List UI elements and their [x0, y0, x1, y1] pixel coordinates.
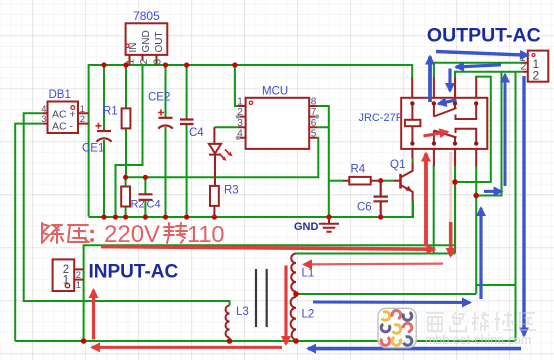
resistor R1 — [122, 108, 131, 128]
wire: L1 top wire — [296, 253, 455, 255]
annotation arrow blue: back from OUTPUT pin2 — [456, 65, 501, 67]
inductor L2 (secondary bottom) — [291, 297, 296, 340]
svg-text:1: 1 — [63, 275, 69, 287]
connector J1 INPUT-AC — [53, 259, 84, 291]
wire: relay bottom pin2 down to L1 wire — [433, 165, 435, 254]
svg-text:R4: R4 — [351, 164, 366, 176]
annotation arrow blue: down into relay pin — [448, 69, 451, 92]
relay K1 JRC-27F — [401, 77, 487, 166]
annotation arrow red: long 220V feed to relay — [101, 247, 435, 250]
MCU pin numbers left 1-4 — [237, 97, 243, 140]
annotation arrow red: fading down from relay — [449, 152, 452, 226]
capacitor CE1 (electrolytic) — [97, 131, 112, 142]
svg-text:JRC-27F: JRC-27F — [358, 112, 402, 124]
Q1 emitter arrow — [405, 186, 412, 192]
svg-text:R3: R3 — [224, 185, 239, 197]
annotation arrow red: up into relay — [424, 154, 428, 247]
svg-text:3: 3 — [153, 59, 164, 65]
wire: Q1 emitter riser — [412, 201, 414, 217]
svg-text:1: 1 — [76, 280, 81, 291]
svg-text:CE2: CE2 — [148, 92, 170, 104]
inductor L3 (primary) — [226, 306, 230, 338]
MCU U2 — [238, 98, 317, 149]
annotation arrow blue: down right side — [522, 76, 525, 336]
MCU pin numbers right 8-5 — [311, 97, 317, 140]
logo arcs row3 — [380, 335, 392, 347]
capacitor C4 (second) — [139, 194, 153, 200]
resistor R4 — [343, 177, 381, 185]
wire: relay bottom-right pin down to L2 wire — [475, 165, 477, 294]
wire: R4 left lead — [329, 180, 343, 182]
svg-text:INPUT-AC: INPUT-AC — [89, 262, 179, 283]
svg-text:IN: IN — [128, 43, 139, 53]
svg-text:GND: GND — [294, 221, 319, 233]
svg-text:L1: L1 — [302, 268, 315, 280]
svg-text:2: 2 — [80, 114, 85, 125]
wire: relay NO contact up to OUTPUT pin2 wire — [476, 72, 501, 196]
wire: relay top-right pin loop down right side — [455, 77, 491, 182]
svg-text:3: 3 — [41, 114, 46, 125]
capacitor CE2 (electrolytic) — [158, 118, 172, 129]
wire: relay pin5 top to OUTPUT pin1 — [434, 63, 522, 78]
watermark text mian bao ban she qu — [426, 312, 536, 331]
wire: L1-L2 junction leads — [295, 292, 297, 342]
svg-text:R1: R1 — [103, 106, 118, 118]
annotation arrow blue: right at relay NO junction — [484, 190, 502, 193]
resistor R2 — [121, 187, 130, 207]
transformer core — [256, 269, 267, 327]
wire: bottom transformer rail — [15, 340, 515, 342]
wire: OUTPUT pin2 branch down to transformer bottom rail — [515, 72, 517, 341]
svg-text:MCU: MCU — [262, 86, 288, 98]
transistor Q1 — [394, 163, 413, 202]
svg-text:8: 8 — [311, 97, 317, 108]
bridge rectifier DB1 — [42, 102, 88, 134]
wire: relay pin top to OUTPUT pin2 — [455, 72, 522, 78]
svg-text:OUT: OUT — [154, 31, 165, 52]
wire: mid rail to MCU pin5 — [126, 138, 319, 178]
svg-text:DB1: DB1 — [49, 89, 71, 101]
svg-text:1: 1 — [237, 97, 243, 108]
svg-text:3: 3 — [237, 118, 243, 129]
wire: MCU pin1 to +V rail — [235, 65, 238, 106]
svg-text:7: 7 — [311, 107, 317, 118]
wire: C4 column — [186, 64, 188, 217]
svg-text:6: 6 — [311, 118, 317, 129]
annotation arrow blue: up from relay NO to output — [504, 75, 507, 187]
wire: R4 to Q1 base — [381, 180, 394, 182]
svg-text:2: 2 — [139, 59, 150, 65]
CE1 plus sign — [96, 123, 102, 129]
annotation arrow red: along bottom to input — [92, 346, 282, 349]
annotation arrow red: left into L1 — [304, 263, 443, 266]
svg-text:2: 2 — [237, 107, 243, 118]
svg-text:7805: 7805 — [133, 9, 160, 23]
wire: MCU pin3 to LED — [214, 126, 238, 128]
LED D1 — [209, 127, 221, 186]
LED emission arrows — [219, 150, 231, 160]
svg-text:2: 2 — [533, 69, 540, 83]
wire: bottom GND rail — [89, 201, 413, 217]
svg-text:mbb.eet-china.com: mbb.eet-china.com — [425, 333, 531, 347]
wire: Q1 collector to relay coil — [412, 89, 414, 163]
wire: R1 column — [125, 64, 127, 177]
svg-text:5: 5 — [311, 128, 317, 139]
relay pin dots — [410, 101, 478, 145]
glyph zhuan — [164, 223, 187, 243]
svg-text:L2: L2 — [302, 309, 315, 321]
annotation arrow blue: along bottom rail leftward — [308, 347, 521, 351]
svg-text:C6: C6 — [357, 202, 372, 214]
wire: relay coil- down (Q1 collector) — [412, 159, 414, 163]
svg-text:L3: L3 — [236, 306, 249, 318]
wire: CE2 column — [165, 64, 167, 217]
svg-text:AC -: AC - — [52, 121, 74, 133]
colon — [90, 232, 94, 241]
CE2 plus sign — [158, 110, 164, 116]
wire: MCU pin8/pin6 vertical to GND — [317, 106, 329, 217]
wire: DB1 pin4 to L3 top — [24, 113, 230, 305]
annotation arrow blue: into OUTPUT pin1 — [436, 52, 528, 56]
wire: DB1 pin3 to bottom transformer rail — [15, 124, 42, 341]
wire: CE1 column — [103, 64, 105, 217]
svg-text:Q1: Q1 — [390, 159, 405, 171]
wire: R2 leads — [125, 177, 127, 217]
svg-text:1: 1 — [126, 59, 137, 65]
annotation arrow blue: along L2 top wire — [313, 301, 470, 305]
resistor R3 — [210, 186, 219, 206]
svg-text:CE1: CE1 — [82, 143, 104, 155]
annotation arrow red: up into INPUT connector — [92, 290, 95, 340]
svg-text:220V: 220V — [104, 221, 160, 248]
svg-text:AC +: AC + — [52, 109, 76, 121]
svg-text:GND: GND — [141, 30, 152, 52]
svg-text:OUTPUT-AC: OUTPUT-AC — [427, 25, 541, 47]
annotation arrow blue: into relay top contact — [439, 100, 457, 104]
logo arcs row2 — [380, 322, 392, 334]
svg-text:C4: C4 — [147, 199, 161, 211]
connector J2 OUTPUT-AC — [522, 51, 548, 82]
annotation arrow red: into relay bottom contact — [424, 132, 448, 136]
ground symbol GND — [319, 217, 339, 232]
logo arcs row1 — [380, 310, 392, 322]
capacitor C4 (top) — [180, 120, 194, 125]
wire: relay common down through junction to L1 wire — [454, 165, 456, 254]
glyph ya — [68, 225, 89, 242]
capacitor C6 — [374, 181, 389, 217]
wire: +V top rail from left drop to relay coil — [89, 65, 413, 217]
wire: INPUT-AC connector to L1 net — [84, 245, 455, 341]
watermark logo box — [378, 308, 416, 347]
wire: C4b leads — [144, 177, 146, 217]
annotation arrow blue: up right of relay — [479, 208, 482, 299]
svg-text:C4: C4 — [189, 127, 204, 139]
wire: L2 top wire — [296, 293, 476, 295]
annotation arrow red: down to bottom rail — [284, 266, 287, 345]
glyph jiang — [42, 223, 63, 243]
wire: L3 bottom lead — [229, 338, 231, 342]
wire: branch to OUTPUT drop — [476, 284, 515, 286]
wire: 7805 GND pin drop to bottom rail — [116, 64, 143, 217]
regulator U 7805 — [126, 23, 168, 65]
red note text: jiang ya (step-down) glyph strokes — [42, 223, 187, 243]
svg-text:4: 4 — [237, 128, 243, 139]
svg-text:110: 110 — [187, 221, 224, 247]
annotation arrow blue: up left of relay — [428, 57, 432, 103]
MCU no-connect dots — [236, 114, 240, 118]
inductor L1 (secondary top) — [291, 254, 296, 292]
